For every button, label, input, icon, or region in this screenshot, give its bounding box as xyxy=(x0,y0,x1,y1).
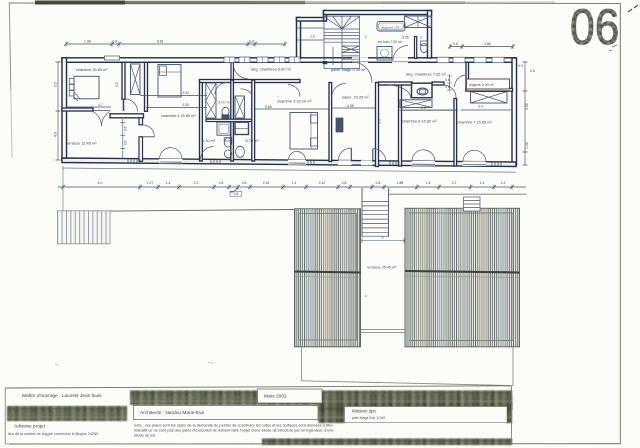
inner dim lines xyxy=(66,106,111,108)
wall terrasse right lower xyxy=(139,137,143,162)
svg-text:5.20 m²: 5.20 m² xyxy=(202,138,216,143)
door corridor to 6.70 xyxy=(241,89,253,96)
lavabo pmr box chambre6 xyxy=(412,83,433,98)
toilet palier xyxy=(420,43,427,52)
frame right line xyxy=(619,3,621,444)
svg-text:0.6: 0.6 xyxy=(530,69,535,73)
outer wall right xyxy=(512,58,517,165)
wall between wc and shower xyxy=(206,119,252,121)
wall salon/hall xyxy=(376,83,379,167)
gap inner bottom lines xyxy=(361,329,406,331)
terrasse inner dim line xyxy=(122,119,124,159)
wall terrasse right upper xyxy=(139,118,143,125)
svg-text:8.81: 8.81 xyxy=(157,40,164,44)
door corridor/chambre4 xyxy=(234,65,248,79)
top wall openings under palier xyxy=(352,57,368,63)
bottom dim line xyxy=(58,186,526,188)
protrusion left wall xyxy=(297,18,301,59)
bath block left wall xyxy=(200,80,203,161)
long terrace line xyxy=(57,210,295,212)
svg-text:5.5: 5.5 xyxy=(378,119,382,124)
wall chambre4 left xyxy=(145,62,148,111)
protrusion right wall xyxy=(428,11,432,59)
guide line left xyxy=(62,166,64,211)
mars2002 box xyxy=(258,389,323,403)
windows corridor top xyxy=(224,57,300,63)
shower 6.70 dark xyxy=(235,122,249,134)
svg-text:1.4: 1.4 xyxy=(426,181,431,185)
small hatch terrace xyxy=(58,211,111,244)
big hatch right xyxy=(405,208,520,346)
svg-text:1.4: 1.4 xyxy=(166,181,171,185)
svg-text:étude de sol.: étude de sol. xyxy=(134,432,156,437)
svg-text:6.70 m²: 6.70 m² xyxy=(246,138,260,143)
svg-text:5.65: 5.65 xyxy=(183,91,190,95)
svg-text:0.8: 0.8 xyxy=(445,85,450,89)
closet wc tall xyxy=(206,83,216,118)
corridor deg735 bottom wall left part xyxy=(379,82,413,85)
below-hatch outline rect xyxy=(301,347,303,381)
corridor deg735 bottom wall mid part xyxy=(432,82,444,85)
svg-text:Architecte : Nardou Marie-Eve: Architecte : Nardou Marie-Eve xyxy=(140,410,205,416)
top dim line right xyxy=(450,46,513,48)
door corridor/chambre5 xyxy=(288,85,300,97)
svg-text:2.6: 2.6 xyxy=(421,106,426,110)
french door chambre5 bottom xyxy=(288,151,306,164)
svg-text:1.4: 1.4 xyxy=(292,181,297,185)
corridor left stub wall xyxy=(231,63,233,81)
stairs gap treads xyxy=(362,202,389,237)
protrusion step wall xyxy=(324,11,327,22)
svg-text:baignoire 170: baignoire 170 xyxy=(381,26,400,30)
svg-text:2.12: 2.12 xyxy=(319,181,326,185)
door 5.20 bottom xyxy=(201,147,214,160)
svg-text:4.95: 4.95 xyxy=(347,104,354,108)
svg-text:Mission dpc: Mission dpc xyxy=(352,409,377,414)
svg-text:0.8: 0.8 xyxy=(124,126,128,131)
top scan streak dark xyxy=(35,1,125,5)
windows top wall left xyxy=(105,56,120,60)
dark bar row2 left xyxy=(7,406,127,421)
hatch left inner outline xyxy=(299,214,357,341)
svg-text:palier étage 9.30 m²: palier étage 9.30 m² xyxy=(331,67,366,72)
closet palier right xyxy=(405,16,432,28)
outer wall left xyxy=(62,58,67,161)
svg-text:0.8: 0.8 xyxy=(376,181,381,185)
wall under chambre1 xyxy=(62,108,93,111)
bath right wall xyxy=(252,80,255,161)
svg-text:1.4: 1.4 xyxy=(480,181,485,185)
door arc chambre1 xyxy=(125,99,138,112)
door arc corridor/chambre6 xyxy=(384,85,411,98)
toilet 6.70 xyxy=(236,146,245,157)
bath middle wall xyxy=(231,80,234,161)
shower palier xyxy=(377,47,392,61)
svg-text:lingerie 3.90 m²: lingerie 3.90 m² xyxy=(469,83,495,87)
top dim line xyxy=(66,43,285,45)
svg-text:06: 06 xyxy=(570,0,620,55)
radiator marks xyxy=(128,159,501,166)
svg-text:3.5: 3.5 xyxy=(115,82,119,87)
wall wc palier xyxy=(415,37,417,59)
stairs dark mark xyxy=(323,61,328,64)
door arc lingerie xyxy=(455,75,467,87)
svg-text:dég. chambres 7.35 m²: dég. chambres 7.35 m² xyxy=(406,72,447,77)
shower 5.20 xyxy=(217,122,230,135)
dark bar row1 xyxy=(130,391,512,406)
right small stairs xyxy=(464,197,481,211)
svg-text:terrasse 12.45 m²: terrasse 12.45 m² xyxy=(66,141,97,146)
svg-text:terrasse 25.45 m²: terrasse 25.45 m² xyxy=(368,266,398,270)
french door chambre4 bottom xyxy=(159,148,183,164)
big door arc palier/salon xyxy=(351,62,372,83)
door salon top xyxy=(332,84,346,98)
bed chambre4 xyxy=(158,65,181,98)
svg-text:0.8: 0.8 xyxy=(242,181,247,185)
mission box xyxy=(345,407,508,423)
svg-text:Mars 2002: Mars 2002 xyxy=(264,394,287,400)
bathtub xyxy=(377,22,405,32)
dim line chambre6 xyxy=(402,109,457,111)
svg-text:1.3: 1.3 xyxy=(310,35,315,39)
french door terrasse12 xyxy=(93,112,110,127)
wall terrasse top right part xyxy=(110,114,144,118)
svg-text:5.65: 5.65 xyxy=(265,105,272,109)
french door chambre6 bottom xyxy=(412,150,436,166)
protrusion top-left wall xyxy=(297,18,326,22)
svg-text:2.85: 2.85 xyxy=(484,42,491,46)
chambre5 bed xyxy=(290,113,318,150)
svg-text:salon 23.25 m²: salon 23.25 m² xyxy=(342,95,370,100)
svg-text:3.5: 3.5 xyxy=(54,82,58,87)
dim line right of protrusion xyxy=(449,74,451,91)
svg-text:0.8: 0.8 xyxy=(453,42,458,46)
svg-text:2.2: 2.2 xyxy=(194,181,199,185)
svg-text:0.9: 0.9 xyxy=(518,64,523,68)
svg-text:Maître d'ouvrage : Lacoste Jea: Maître d'ouvrage : Lacoste Jean louis xyxy=(22,393,102,399)
boxed 0.8 leader xyxy=(230,188,238,192)
right upper line xyxy=(389,193,527,195)
svg-text:wc bain 7.00 m²: wc bain 7.00 m² xyxy=(378,40,403,44)
windows top wall right xyxy=(437,57,504,63)
title top line xyxy=(5,386,510,388)
svg-text:lieu dit la combe de leygue co: lieu dit la combe de leygue commune le B… xyxy=(8,432,98,436)
svg-text:4.7: 4.7 xyxy=(98,103,103,107)
svg-text:1.2: 1.2 xyxy=(501,181,506,185)
grain overlays xyxy=(7,391,512,446)
svg-text:0.8: 0.8 xyxy=(342,181,347,185)
wall chambre1 right xyxy=(122,62,125,99)
dark bar bottom xyxy=(262,439,512,446)
svg-text:chambre 7 15.65 m²: chambre 7 15.65 m² xyxy=(457,120,493,125)
svg-text:0.8: 0.8 xyxy=(249,40,254,44)
hall opening to terrace xyxy=(361,149,386,166)
svg-text:2.2: 2.2 xyxy=(452,181,457,185)
closet 6.70 xyxy=(235,96,245,118)
wall chambre5/salon xyxy=(329,83,332,162)
gap dim line 3 xyxy=(361,240,405,242)
svg-text:dég. chambres 5.00 m²: dég. chambres 5.00 m² xyxy=(251,67,292,72)
frame left line (fading) xyxy=(9,2,11,90)
closet chambre1 xyxy=(131,64,141,95)
pastel tint bands on hatches xyxy=(305,209,506,347)
right vertical dim xyxy=(524,62,526,165)
svg-text:1.98: 1.98 xyxy=(84,40,91,44)
salon single door xyxy=(338,148,352,165)
hatch left mid line xyxy=(295,272,361,273)
svg-text:0.8: 0.8 xyxy=(124,140,128,145)
svg-text:1.27: 1.27 xyxy=(147,181,154,185)
dark bar right extension xyxy=(318,396,512,410)
title right edge xyxy=(511,386,513,444)
svg-text:indicatif ce ne sont pas des: indicatif ce ne sont pas des plans d'exé… xyxy=(134,427,334,432)
wall hall/chambre6 xyxy=(399,84,402,166)
svg-text:0.8: 0.8 xyxy=(445,78,450,82)
svg-text:0.8: 0.8 xyxy=(113,40,118,44)
slab edge line under plan xyxy=(62,168,516,172)
corridor deg5 bottom wall xyxy=(200,80,301,83)
big hatch left xyxy=(295,209,361,347)
architecte box xyxy=(134,406,319,420)
svg-text:chambre 6 15.60 m²: chambre 6 15.60 m² xyxy=(402,119,438,124)
door arc palier bath xyxy=(393,46,408,61)
toilet wc xyxy=(222,107,229,115)
svg-text:5.85: 5.85 xyxy=(183,103,190,107)
svg-text:4.0: 4.0 xyxy=(98,181,103,185)
corner scribble top-right xyxy=(628,5,638,12)
svg-text:plan étage Ech 1/100: plan étage Ech 1/100 xyxy=(352,416,385,420)
svg-text:0.8: 0.8 xyxy=(234,192,239,196)
svg-text:3.35: 3.35 xyxy=(402,36,409,40)
frame top line xyxy=(9,2,621,5)
lingerie label box xyxy=(467,79,510,89)
tiny smudges xyxy=(365,295,367,297)
protrusion top-right wall xyxy=(324,11,432,15)
stairs gap verticals xyxy=(361,188,363,237)
svg-text:3.56: 3.56 xyxy=(525,103,529,110)
svg-text:3: 3 xyxy=(382,236,384,240)
closet chambre7 xyxy=(471,92,508,104)
svg-text:0.8: 0.8 xyxy=(219,181,224,185)
left vertical dim xyxy=(57,62,59,160)
door corridor to wc xyxy=(215,83,227,95)
toilet 5.20 upper xyxy=(224,138,232,147)
svg-text:Adresse projet: Adresse projet xyxy=(14,424,46,430)
svg-text:chambre 15.65 m²: chambre 15.65 m² xyxy=(76,67,108,72)
outer wall top xyxy=(62,58,516,63)
bed chambre1 xyxy=(74,76,99,99)
lingerie walls xyxy=(466,62,469,91)
svg-text:chambre 4 25.80 m²: chambre 4 25.80 m² xyxy=(161,113,197,118)
svg-text:3.4: 3.4 xyxy=(478,105,483,109)
salon cabinet xyxy=(336,118,343,132)
svg-text:2: 2 xyxy=(420,36,422,40)
svg-text:1.04: 1.04 xyxy=(525,142,529,149)
svg-text:3.00 m²: 3.00 m² xyxy=(218,100,232,105)
stairs palier xyxy=(324,16,360,68)
hatch right mid line xyxy=(405,271,520,273)
door arc corridor/chambre7 xyxy=(444,85,457,98)
svg-text:2.18: 2.18 xyxy=(263,181,270,185)
title left edge xyxy=(4,388,6,444)
frame bottom line xyxy=(9,443,621,445)
door terrasse/chambre4 xyxy=(143,125,155,137)
svg-text:1.88: 1.88 xyxy=(397,181,404,185)
svg-text:4.6: 4.6 xyxy=(54,132,58,137)
outer wall bottom (sloped band) xyxy=(62,158,516,167)
wall chambre6/7 xyxy=(454,99,457,167)
hatch right inner outline xyxy=(409,213,513,341)
toilet 5.20 lower xyxy=(224,150,231,158)
svg-text:chambre 5 20.10 m²: chambre 5 20.10 m² xyxy=(277,99,313,104)
svg-text:1: 1 xyxy=(365,35,367,39)
french door chambre7 bottom xyxy=(463,150,487,166)
palier corridor lines xyxy=(297,27,324,29)
closet chambre6 xyxy=(400,100,432,108)
dark bar between boxes xyxy=(318,404,345,423)
